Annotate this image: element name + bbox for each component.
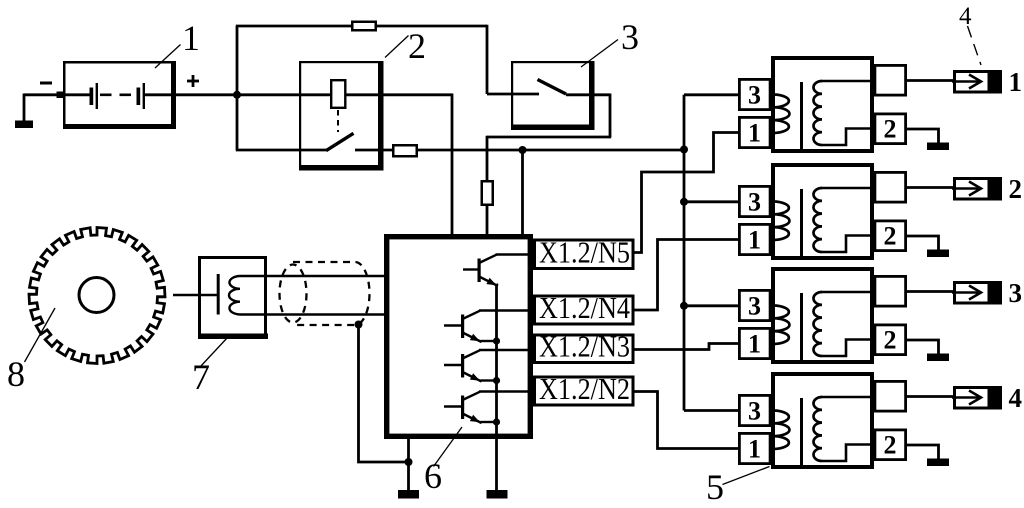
wire: switch input contact <box>487 93 539 96</box>
wire: relay contact feed <box>236 149 326 152</box>
wire: riser from junction up to top feed <box>236 26 239 94</box>
wire: switch output loop down <box>609 94 612 138</box>
svg-text:3: 3 <box>748 188 761 217</box>
wire: battery negative lead <box>24 93 64 96</box>
relay switch blade <box>326 133 354 150</box>
wire: coil supply bus vertical <box>683 95 686 411</box>
ignition coil module 1 (5) with terminals 3/1/2, ground and spark plug 1 (4) <box>739 58 1002 151</box>
svg-text:2: 2 <box>884 326 897 355</box>
svg-text:X1.2/N5: X1.2/N5 <box>539 235 630 270</box>
svg-text:2: 2 <box>408 26 426 66</box>
svg-text:2: 2 <box>1009 174 1023 204</box>
switch blade <box>538 80 567 95</box>
svg-text:1: 1 <box>748 119 761 148</box>
cable shield (dashed screen) <box>293 262 370 325</box>
node junction dot: feed branch to control unit <box>519 146 527 154</box>
node junction dot: bus to coil 2 <box>680 198 688 206</box>
battery cell 1 long plate <box>96 83 98 109</box>
wire: sensor signal upper to control unit <box>240 275 387 277</box>
svg-text:X1.2/N4: X1.2/N4 <box>539 290 630 325</box>
wire: N3 output to coil 3 terminal 1 <box>634 344 739 350</box>
ignition coil module 2 (5) with terminals 3/1/2, ground and spark plug 2 (4) <box>739 165 1002 258</box>
wire: bus to coil 4 terminal 3 <box>684 409 739 412</box>
svg-text:1: 1 <box>1009 67 1023 97</box>
svg-text:1: 1 <box>748 435 761 464</box>
svg-text:8: 8 <box>7 354 25 394</box>
wire: bus to coil 1 terminal 3 <box>684 93 739 96</box>
svg-text:7: 7 <box>192 357 210 397</box>
terminal label box X1.2/N4 <box>535 296 634 324</box>
node junction dot: shield drain joins unit ground <box>405 458 413 466</box>
wire: bus to coil 2 terminal 3 <box>684 200 739 203</box>
wire: relay output contact <box>355 149 392 152</box>
transistor VT3 (output N3) <box>444 364 463 366</box>
leader line for label 3 <box>581 40 618 68</box>
wire: switch output contact <box>566 93 610 96</box>
battery terminal tick <box>57 92 64 99</box>
wire: drop from top feed into switch S <box>486 25 489 94</box>
battery cell 2 short plate <box>137 88 141 106</box>
wire: switch output drop through fuse <box>486 136 489 237</box>
leader line for label 7 <box>200 337 228 367</box>
terminal label box X1.2/N3 <box>535 335 634 363</box>
switch S (3) box <box>512 62 593 128</box>
wire: feed branch down to control unit <box>521 150 524 237</box>
svg-text:3: 3 <box>748 397 761 426</box>
svg-text:1: 1 <box>748 226 761 255</box>
wire: bus to coil 3 terminal 3 <box>684 304 739 307</box>
battery dashed link between cells <box>100 94 135 97</box>
sensor box (7) <box>200 258 266 337</box>
leader line for label 4 (dashed) <box>968 26 982 65</box>
svg-text:3: 3 <box>748 292 761 321</box>
battery cell 1 short plate <box>90 88 94 106</box>
svg-text:3: 3 <box>1009 278 1023 308</box>
ground (control unit, case side) <box>398 490 419 499</box>
fuse F2 after relay contact <box>393 145 417 156</box>
wire: battery + to relay junction <box>143 93 237 96</box>
ignition coil module 3 (5) with terminals 3/1/2, ground and spark plug 3 (4) <box>739 269 1002 362</box>
svg-text:6: 6 <box>424 456 442 496</box>
relay coil winding <box>331 80 345 108</box>
ground (battery) <box>15 121 33 129</box>
wire: shield drain to ground <box>359 325 409 463</box>
label + (battery plus) <box>187 80 199 83</box>
wire: top feed line to ignition switch <box>236 25 487 28</box>
transistor VT1 (output N5) <box>463 268 479 270</box>
fuse F1 on top feed <box>352 22 376 31</box>
terminal label box X1.2/N5 <box>535 240 634 269</box>
wire: riser from relay coil to control unit <box>451 94 454 238</box>
label − (battery minus) <box>40 82 52 85</box>
svg-text:3: 3 <box>748 81 761 110</box>
svg-text:2: 2 <box>884 222 897 251</box>
wire: sensor pole stub <box>173 294 218 296</box>
wire: switch output loop back <box>487 136 611 139</box>
wire: +15 feed to coil bus <box>418 149 684 152</box>
ground (control unit, emitter side) <box>487 490 508 499</box>
node junction dot: feed joins coil supply bus <box>680 146 688 154</box>
fuse F3 on switch output <box>482 181 493 205</box>
transistor VT4 (output N2) <box>444 405 463 407</box>
svg-text:X1.2/N3: X1.2/N3 <box>539 329 630 364</box>
wire: N5 output to coil 1 terminal 1 <box>634 133 739 253</box>
ignition coil module 4 (5) with terminals 3/1/2, ground and spark plug 4 (4) <box>739 374 1002 467</box>
sensor core pole piece <box>217 274 220 315</box>
svg-text:1: 1 <box>182 18 200 58</box>
relay dashed actuator link <box>337 110 339 132</box>
svg-text:2: 2 <box>884 115 897 144</box>
wire: negative lead drop to ground <box>23 94 26 122</box>
wire: sensor signal lower to control unit <box>240 313 387 315</box>
battery GB (1) outline <box>64 62 174 127</box>
battery cell 2 long plate <box>143 83 145 109</box>
node A junction dot at battery/relay feed <box>233 91 241 99</box>
leader line for label 6 <box>434 427 463 467</box>
svg-text:5: 5 <box>706 467 724 507</box>
wire: emitter bus to ground <box>495 284 498 491</box>
wire: junction drop to relay contact <box>236 94 239 151</box>
rotor hub circle <box>79 278 114 313</box>
svg-text:3: 3 <box>621 17 639 57</box>
svg-text:X1.2/N2: X1.2/N2 <box>539 371 630 406</box>
leader line for label 5 <box>723 467 770 485</box>
wire: control unit ground lead <box>407 437 410 491</box>
control unit (6) box <box>387 237 531 437</box>
sensor coil (7) winding <box>229 276 240 315</box>
terminal label box X1.2/N2 <box>535 377 634 405</box>
wire: relay coil to control-unit riser <box>345 93 452 96</box>
svg-text:4: 4 <box>959 3 972 30</box>
node junction dot: bus to coil 3 <box>680 302 688 310</box>
wire: N4 output to coil 2 terminal 1 <box>634 240 739 311</box>
wire: junction to relay coil <box>237 93 331 96</box>
leader line for label 8 <box>25 308 56 362</box>
wire: N2 output to coil 4 terminal 1 <box>634 392 739 449</box>
svg-text:4: 4 <box>1009 383 1023 413</box>
transistor VT2 (output N4) <box>444 324 463 326</box>
svg-text:1: 1 <box>748 330 761 359</box>
relay K (2) box <box>300 62 382 169</box>
toothed rotor wheel (8) <box>29 228 165 364</box>
leader line for label 1 <box>155 45 181 69</box>
leader line for label 2 <box>385 36 409 58</box>
wire: battery internal negative link <box>63 93 91 96</box>
node junction dot: shield drain tap <box>355 321 363 329</box>
svg-text:2: 2 <box>884 431 897 460</box>
